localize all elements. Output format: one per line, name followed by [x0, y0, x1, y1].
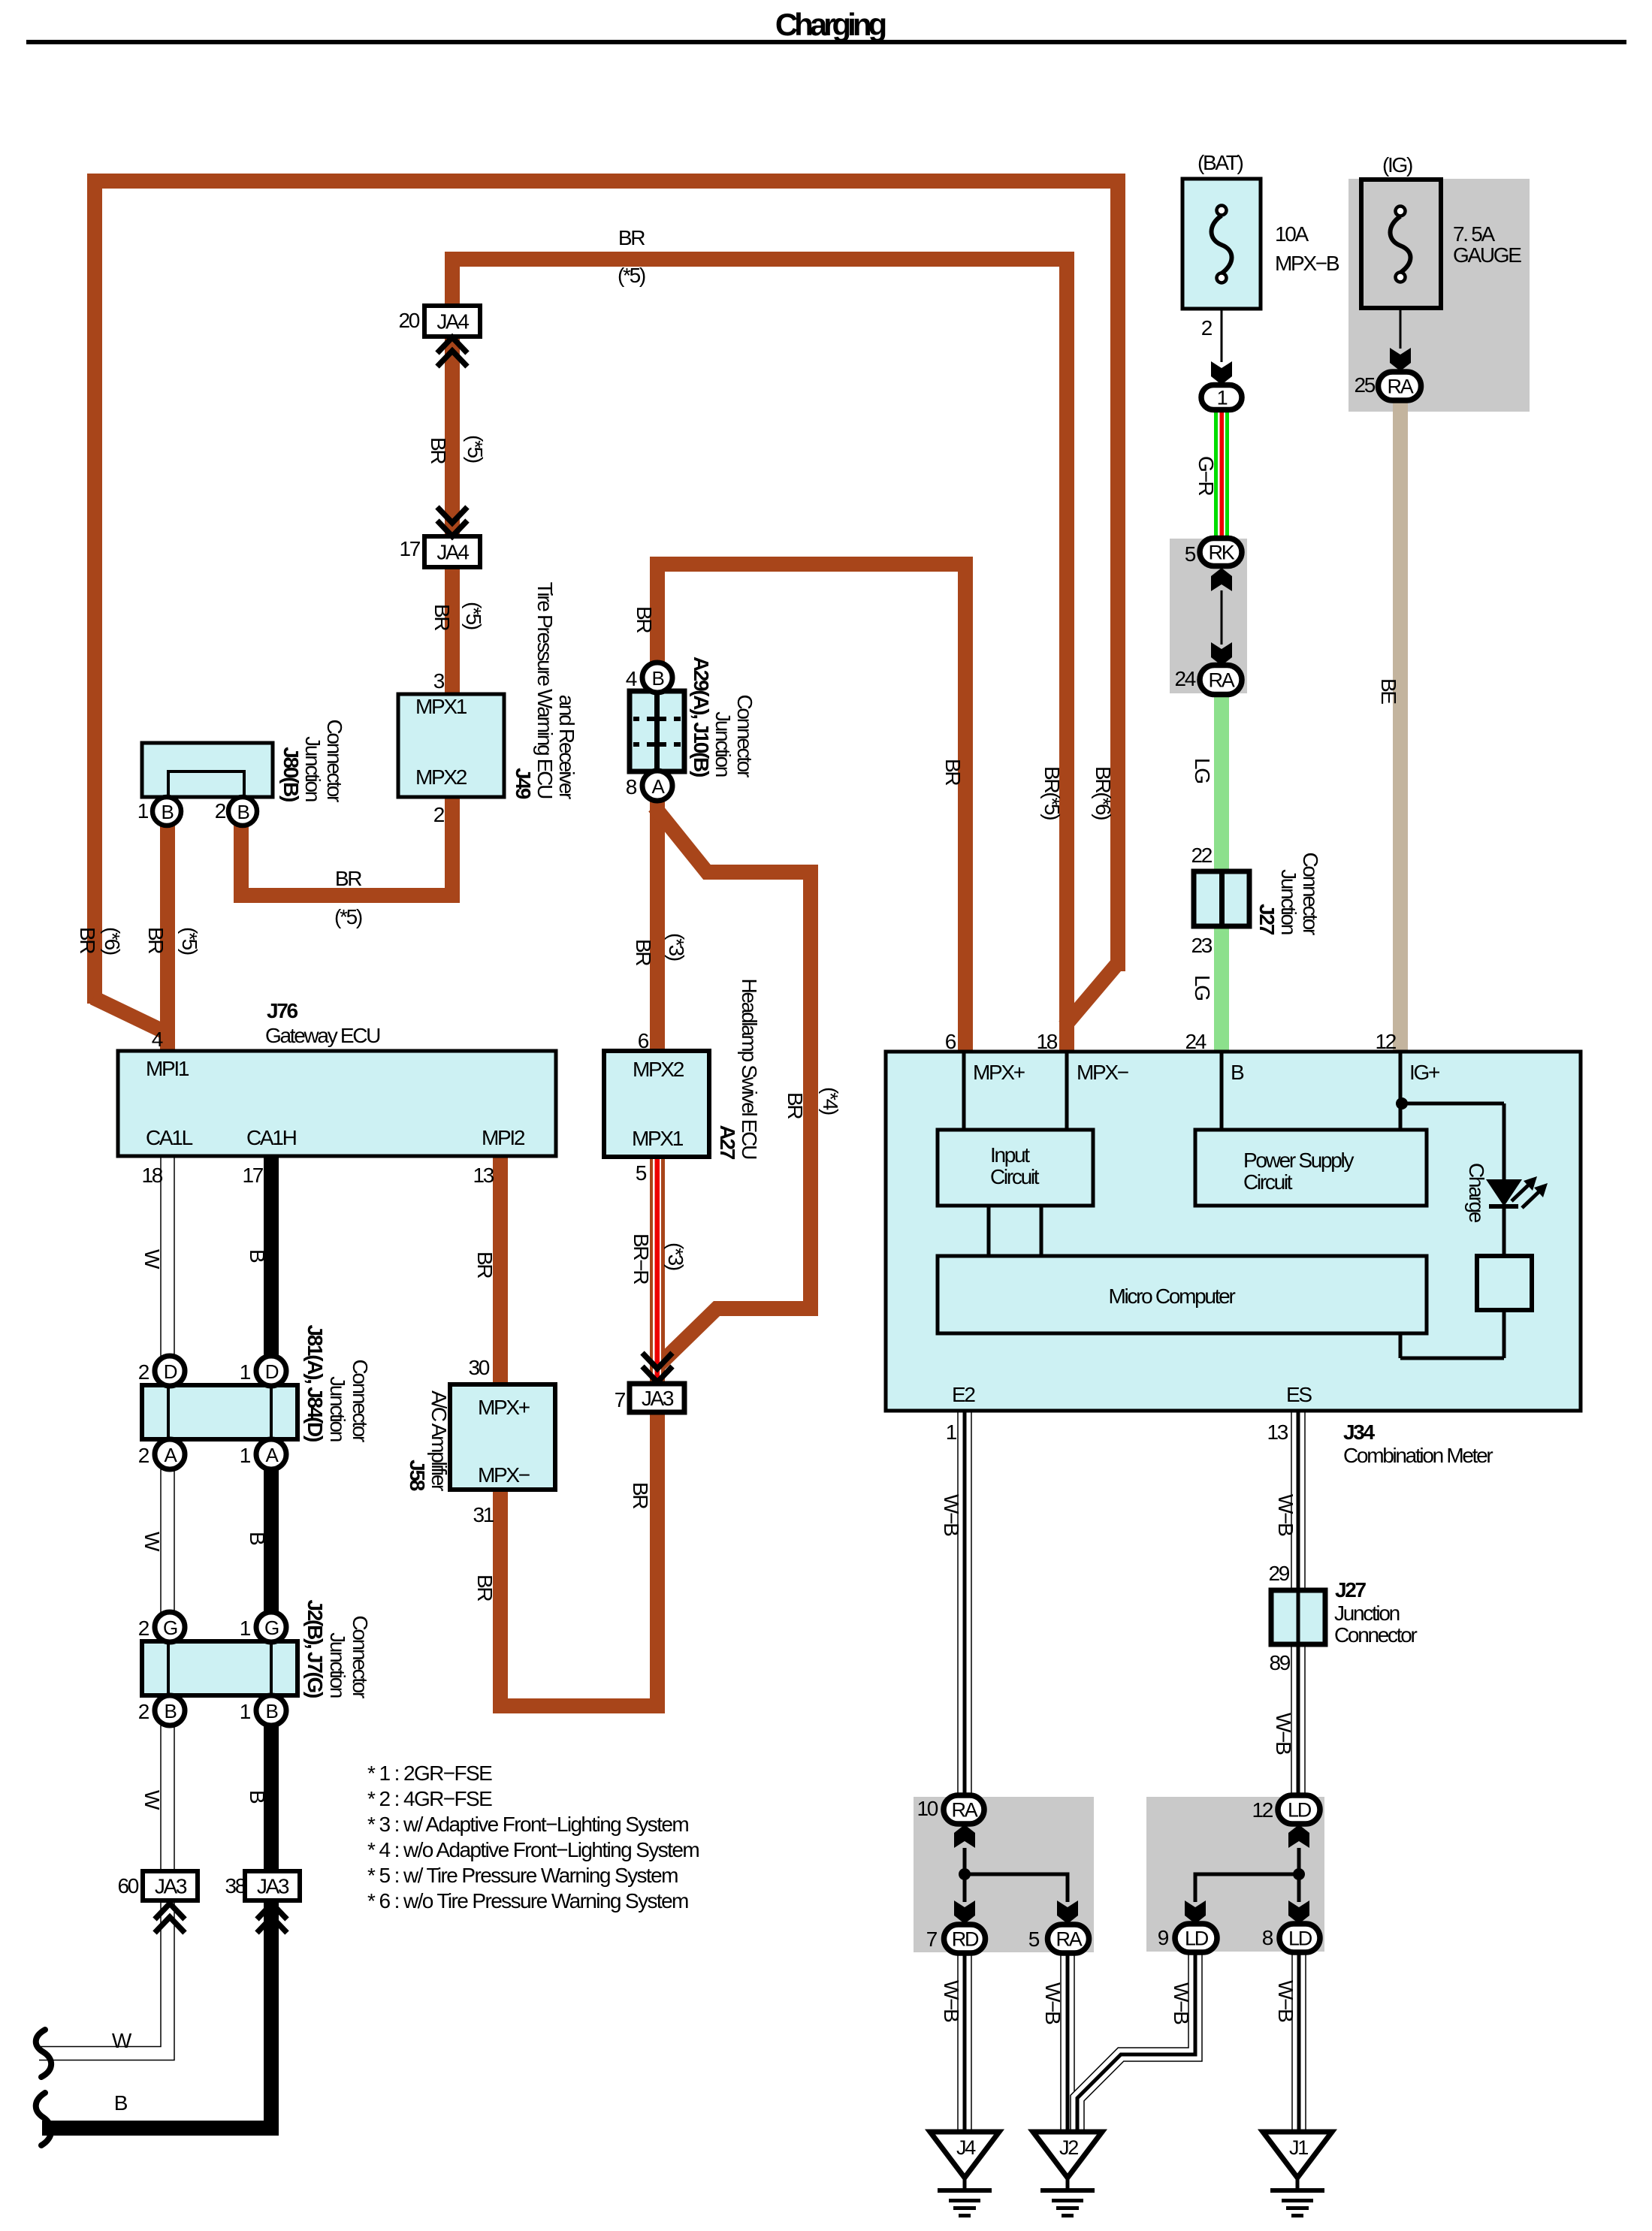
svg-text:BR: BR	[335, 867, 361, 890]
svg-text:GAUGE: GAUGE	[1453, 243, 1521, 267]
svg-text:8: 8	[1262, 1926, 1273, 1949]
svg-text:7: 7	[615, 1388, 626, 1411]
svg-text:(*5): (*5)	[464, 435, 487, 463]
svg-text:2: 2	[433, 803, 445, 826]
svg-text:24: 24	[1185, 1030, 1206, 1053]
svg-text:2: 2	[215, 799, 226, 823]
svg-text:* 4 : w/o Adaptive Front−Light: * 4 : w/o Adaptive Front−Lighting System	[367, 1838, 699, 1861]
svg-text:24: 24	[1174, 667, 1195, 690]
svg-text:G−R: G−R	[1194, 456, 1218, 496]
svg-text:* 5 : w/ Tire Pressure Warning: * 5 : w/ Tire Pressure Warning System	[367, 1864, 678, 1887]
svg-text:MPX1: MPX1	[415, 695, 467, 718]
svg-text:LD: LD	[1185, 1928, 1209, 1950]
svg-text:Connector: Connector	[349, 1360, 372, 1442]
svg-text:1: 1	[240, 1360, 251, 1384]
svg-text:RA: RA	[1209, 669, 1235, 692]
svg-text:BR: BR	[76, 927, 99, 953]
svg-text:12: 12	[1252, 1798, 1273, 1822]
svg-text:J49: J49	[512, 768, 535, 799]
svg-text:LG: LG	[1191, 975, 1214, 1000]
svg-text:MPI2: MPI2	[482, 1126, 525, 1149]
svg-text:J76: J76	[267, 999, 298, 1022]
svg-text:LG: LG	[1191, 758, 1214, 783]
svg-text:B: B	[237, 801, 249, 823]
svg-text:12: 12	[1375, 1030, 1396, 1053]
svg-text:Combination Meter: Combination Meter	[1343, 1444, 1493, 1467]
svg-text:D: D	[265, 1360, 279, 1383]
svg-text:Circuit: Circuit	[990, 1165, 1040, 1188]
svg-text:IG+: IG+	[1409, 1061, 1439, 1084]
svg-text:BR(*5): BR(*5)	[1040, 766, 1064, 820]
svg-text:JA3: JA3	[257, 1875, 289, 1898]
svg-text:BR(*6): BR(*6)	[1092, 766, 1115, 820]
svg-text:RK: RK	[1209, 542, 1235, 564]
svg-text:MPX−B: MPX−B	[1275, 252, 1339, 275]
svg-text:1: 1	[240, 1700, 251, 1723]
svg-text:W: W	[140, 1790, 164, 1810]
svg-text:BR: BR	[941, 759, 965, 785]
svg-text:31: 31	[473, 1503, 494, 1526]
svg-text:1: 1	[240, 1617, 251, 1640]
svg-text:J80(B): J80(B)	[279, 747, 303, 802]
svg-text:BR: BR	[629, 1482, 652, 1508]
svg-text:2: 2	[1201, 316, 1213, 340]
svg-text:MPX+: MPX+	[973, 1061, 1025, 1084]
svg-text:7: 7	[926, 1928, 938, 1951]
svg-text:2: 2	[138, 1360, 149, 1384]
svg-text:22: 22	[1191, 844, 1212, 867]
svg-text:RA: RA	[1388, 376, 1414, 398]
svg-text:B: B	[114, 2091, 128, 2115]
svg-text:RA: RA	[952, 1799, 978, 1822]
svg-text:* 3 : w/ Adaptive Front−Lighti: * 3 : w/ Adaptive Front−Lighting System	[367, 1813, 688, 1836]
svg-text:MPX2: MPX2	[633, 1058, 684, 1081]
svg-text:29: 29	[1268, 1562, 1289, 1585]
svg-text:5: 5	[636, 1161, 647, 1185]
svg-text:(IG): (IG)	[1382, 153, 1412, 177]
svg-text:Charge: Charge	[1465, 1163, 1488, 1223]
svg-text:5: 5	[1185, 542, 1196, 566]
svg-text:17: 17	[242, 1164, 263, 1187]
svg-text:W−B: W−B	[1274, 1494, 1297, 1536]
svg-text:B: B	[246, 1790, 269, 1804]
svg-text:8: 8	[626, 775, 637, 799]
svg-text:6: 6	[945, 1030, 956, 1053]
svg-text:W−B: W−B	[1170, 1982, 1193, 2024]
svg-text:Charging: Charging	[775, 7, 886, 42]
svg-text:B: B	[161, 801, 173, 823]
svg-text:J27: J27	[1335, 1578, 1367, 1602]
svg-text:JA4: JA4	[436, 541, 469, 564]
svg-text:J58: J58	[406, 1460, 429, 1491]
svg-text:3: 3	[433, 669, 445, 693]
svg-text:B: B	[1231, 1061, 1244, 1084]
svg-text:D: D	[164, 1360, 177, 1383]
svg-text:10: 10	[917, 1797, 938, 1820]
svg-text:18: 18	[141, 1164, 162, 1187]
svg-text:BR−R: BR−R	[630, 1233, 653, 1284]
svg-text:RD: RD	[952, 1928, 979, 1951]
svg-text:A29(A), J10(B): A29(A), J10(B)	[690, 657, 713, 777]
svg-text:Connector: Connector	[733, 695, 757, 777]
svg-text:1: 1	[946, 1420, 957, 1444]
svg-text:BR: BR	[144, 927, 168, 953]
svg-text:Junction: Junction	[326, 1632, 349, 1698]
svg-text:23: 23	[1191, 934, 1212, 957]
svg-text:Junction: Junction	[1277, 869, 1300, 934]
svg-text:Headlamp Swivel ECU: Headlamp Swivel ECU	[738, 978, 761, 1159]
svg-text:BR: BR	[430, 604, 454, 630]
svg-text:JA3: JA3	[642, 1387, 674, 1410]
svg-text:W−B: W−B	[1274, 1980, 1297, 2022]
svg-text:Circuit: Circuit	[1243, 1170, 1293, 1194]
svg-text:Junction: Junction	[1334, 1602, 1400, 1625]
svg-text:B: B	[246, 1249, 269, 1263]
svg-text:B: B	[246, 1532, 269, 1545]
svg-text:MPX−: MPX−	[1077, 1061, 1128, 1084]
svg-text:2: 2	[138, 1700, 149, 1723]
svg-text:J34: J34	[1343, 1420, 1376, 1444]
svg-text:B: B	[651, 667, 663, 690]
svg-text:MPX2: MPX2	[415, 765, 467, 789]
svg-text:J1: J1	[1289, 2136, 1308, 2159]
svg-text:CA1L: CA1L	[146, 1126, 193, 1149]
svg-text:Junction: Junction	[711, 711, 735, 777]
svg-text:W−B: W−B	[940, 1980, 963, 2022]
svg-text:(*6): (*6)	[101, 927, 124, 955]
svg-text:Connector: Connector	[1334, 1623, 1417, 1647]
svg-text:1: 1	[1217, 387, 1228, 409]
svg-text:MPX1: MPX1	[632, 1127, 684, 1150]
svg-text:J2: J2	[1059, 2136, 1078, 2159]
svg-text:JA4: JA4	[436, 310, 469, 334]
svg-text:J2(B), J7(G): J2(B), J7(G)	[304, 1599, 327, 1698]
svg-text:7. 5A: 7. 5A	[1453, 222, 1496, 246]
svg-text:MPI1: MPI1	[146, 1057, 189, 1080]
svg-text:A/C Amplifier: A/C Amplifier	[427, 1390, 451, 1491]
svg-text:Power Supply: Power Supply	[1243, 1149, 1354, 1172]
svg-text:(*3): (*3)	[665, 933, 688, 961]
svg-text:38: 38	[225, 1874, 246, 1897]
svg-text:J27: J27	[1255, 904, 1279, 935]
svg-text:9: 9	[1158, 1926, 1169, 1949]
svg-text:W: W	[140, 1249, 164, 1269]
svg-text:LD: LD	[1288, 1799, 1312, 1822]
svg-text:BR: BR	[633, 606, 656, 632]
svg-text:BR: BR	[473, 1251, 497, 1278]
svg-text:Gateway ECU: Gateway ECU	[265, 1024, 380, 1047]
svg-text:Junction: Junction	[301, 736, 325, 802]
svg-text:W: W	[112, 2029, 132, 2052]
svg-text:20: 20	[398, 309, 419, 332]
svg-text:A27: A27	[716, 1125, 739, 1160]
svg-text:G: G	[163, 1617, 177, 1639]
svg-text:25: 25	[1354, 373, 1375, 397]
svg-text:Micro Computer: Micro Computer	[1109, 1285, 1236, 1308]
svg-text:MPX+: MPX+	[478, 1396, 530, 1419]
svg-text:W−B: W−B	[940, 1494, 963, 1536]
svg-text:BR: BR	[632, 939, 655, 965]
svg-text:RA: RA	[1056, 1928, 1083, 1951]
svg-text:Junction: Junction	[326, 1376, 349, 1442]
svg-text:BE: BE	[1377, 678, 1400, 704]
svg-text:J4: J4	[956, 2136, 976, 2159]
svg-text:MPX−: MPX−	[478, 1463, 530, 1487]
svg-text:B: B	[164, 1700, 176, 1722]
svg-text:Connector: Connector	[1299, 853, 1322, 935]
svg-text:ES: ES	[1286, 1383, 1312, 1406]
svg-text:60: 60	[117, 1874, 138, 1897]
svg-text:W: W	[140, 1532, 164, 1552]
svg-text:Connector: Connector	[323, 720, 346, 802]
svg-text:W−B: W−B	[1041, 1982, 1065, 2024]
svg-text:BR: BR	[784, 1092, 807, 1119]
svg-text:18: 18	[1036, 1030, 1057, 1053]
svg-text:89: 89	[1269, 1651, 1290, 1674]
svg-text:1: 1	[240, 1444, 251, 1467]
svg-text:13: 13	[1267, 1420, 1288, 1444]
svg-text:B: B	[265, 1700, 277, 1722]
svg-text:* 2 : 4GR−FSE: * 2 : 4GR−FSE	[367, 1787, 492, 1810]
svg-text:and Receiver: and Receiver	[555, 695, 578, 799]
svg-text:BR: BR	[473, 1574, 497, 1601]
svg-text:BR: BR	[427, 437, 450, 463]
svg-text:CA1H: CA1H	[246, 1126, 296, 1149]
svg-text:4: 4	[626, 667, 637, 690]
svg-text:1: 1	[137, 799, 149, 823]
svg-text:10A: 10A	[1275, 222, 1309, 246]
svg-text:6: 6	[638, 1029, 649, 1052]
svg-text:5: 5	[1028, 1928, 1040, 1951]
svg-text:(*5): (*5)	[462, 602, 485, 629]
svg-text:J81(A), J84(D): J81(A), J84(D)	[304, 1324, 327, 1442]
svg-text:BR: BR	[618, 226, 645, 249]
svg-text:W−B: W−B	[1272, 1713, 1295, 1755]
svg-text:LD: LD	[1288, 1928, 1312, 1950]
svg-text:* 1 : 2GR−FSE: * 1 : 2GR−FSE	[367, 1762, 492, 1785]
svg-text:JA3: JA3	[155, 1875, 187, 1898]
svg-text:Connector: Connector	[349, 1616, 372, 1698]
svg-text:30: 30	[468, 1356, 489, 1379]
svg-text:4: 4	[152, 1028, 163, 1051]
svg-text:(BAT): (BAT)	[1197, 151, 1243, 174]
svg-text:G: G	[264, 1617, 279, 1639]
svg-text:2: 2	[138, 1444, 149, 1467]
svg-text:17: 17	[399, 537, 420, 560]
svg-text:(*3): (*3)	[664, 1242, 687, 1270]
svg-text:Tire Pressure Warning ECU: Tire Pressure Warning ECU	[533, 582, 557, 799]
svg-text:(*5): (*5)	[618, 264, 645, 287]
svg-text:Input: Input	[990, 1143, 1030, 1167]
svg-text:2: 2	[138, 1617, 149, 1640]
svg-text:E2: E2	[952, 1383, 975, 1406]
svg-text:(*4): (*4)	[819, 1087, 842, 1115]
svg-text:13: 13	[473, 1164, 494, 1187]
svg-text:* 6 : w/o Tire Pressure Warnin: * 6 : w/o Tire Pressure Warning System	[367, 1889, 688, 1913]
svg-text:(*5): (*5)	[334, 905, 362, 928]
svg-text:(*5): (*5)	[178, 927, 201, 955]
